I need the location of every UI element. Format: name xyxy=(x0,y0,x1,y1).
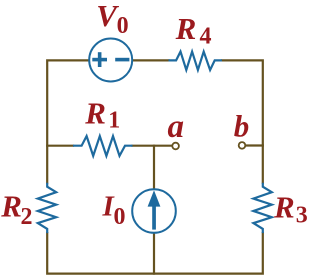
svg-text:R: R xyxy=(175,11,197,46)
svg-text:R: R xyxy=(0,189,22,224)
svg-text:4: 4 xyxy=(200,24,212,50)
svg-text:b: b xyxy=(234,109,250,144)
svg-text:0: 0 xyxy=(117,13,129,39)
svg-text:1: 1 xyxy=(108,108,120,134)
svg-text:2: 2 xyxy=(21,204,33,230)
svg-text:0: 0 xyxy=(114,204,126,230)
svg-text:a: a xyxy=(168,109,185,145)
svg-text:3: 3 xyxy=(296,203,308,229)
svg-text:R: R xyxy=(273,189,295,224)
svg-text:R: R xyxy=(84,95,106,130)
